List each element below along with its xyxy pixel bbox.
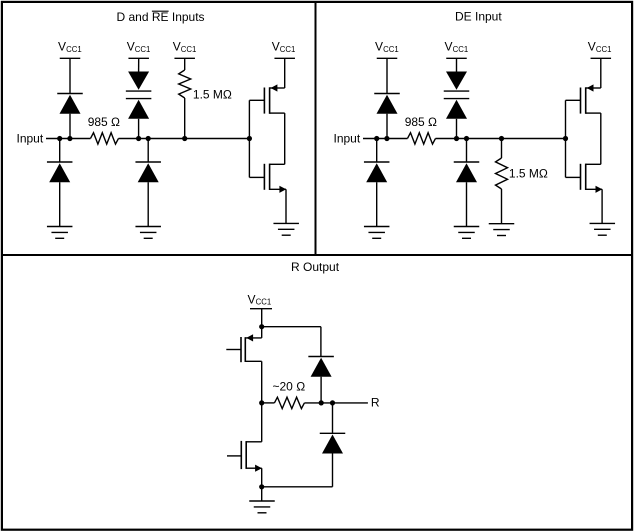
bottom panel: clamp diode D11 (output to VCC1) bbox=[308, 357, 334, 377]
right panel: node dot D9 bbox=[454, 136, 459, 141]
right panel: wire D9 to node bbox=[456, 119, 458, 139]
right panel: Input label bbox=[334, 131, 361, 145]
left panel: wire VCC1 to Q1 source bbox=[284, 58, 286, 88]
left panel: wire node to D5 bbox=[147, 139, 149, 163]
bottom panel: PMOS transistor Q5 bbox=[226, 334, 261, 362]
left panel: wire Q2 source to ground bbox=[285, 189, 287, 223]
bottom panel: VCC1 supply (over PMOS Q5) bbox=[248, 292, 273, 308]
right panel: VCC1 supply 2 (over diode pair) bbox=[445, 40, 469, 59]
left panel: VCC1 supply 4 (over PMOS Q1) bbox=[272, 40, 296, 59]
svg-text:V: V bbox=[375, 40, 383, 54]
left panel: resistor R2 label bbox=[193, 88, 232, 102]
bottom panel: node dot clamp bottom bbox=[330, 400, 335, 405]
svg-text:985 Ω: 985 Ω bbox=[405, 115, 437, 129]
left panel: input rail wire left of R1 bbox=[46, 138, 91, 140]
svg-text:V: V bbox=[272, 40, 280, 54]
right panel: VCC1 supply 1 (over ESD diode D6) bbox=[375, 40, 399, 59]
right panel: wire input node to D7 bbox=[376, 139, 378, 163]
bottom panel: wire D12 to source rail bbox=[262, 454, 333, 487]
right panel: ESD diode D6 (input to VCC1) bbox=[374, 94, 400, 114]
left panel: node dot D4 bbox=[136, 136, 141, 141]
right panel: wire node to D10 bbox=[466, 139, 468, 163]
svg-text:CC1: CC1 bbox=[383, 45, 399, 54]
right panel: node dot input/D6 bbox=[384, 136, 389, 141]
left panel: wire VCC1 to R2 bbox=[184, 58, 186, 70]
left panel: wire gate junction vertical bbox=[248, 100, 250, 177]
left panel: wire Q1 drain to Q2 drain bbox=[284, 113, 286, 164]
bottom panel: wire Q5 drain to output node bbox=[261, 361, 263, 442]
left panel: wire input node to D2 bbox=[59, 139, 61, 163]
right panel: clamp diode D8 (pointing down) bbox=[444, 72, 470, 92]
right panel: NMOS transistor Q4 bbox=[566, 164, 603, 193]
svg-text:CC1: CC1 bbox=[135, 45, 151, 54]
left panel: wire D1 to input node bbox=[69, 114, 71, 139]
title: D and RE Inputs (overline on RE) bbox=[117, 10, 205, 24]
right panel: clamp diode D9 (pointing up) bbox=[444, 99, 470, 119]
left panel: ground symbol under D2 bbox=[47, 227, 72, 239]
right panel: wire D7 to ground bbox=[376, 182, 378, 226]
svg-text:V: V bbox=[588, 40, 596, 54]
bottom panel: wire Q6 source to ground bbox=[261, 468, 263, 501]
left panel: node dot input/D2 bbox=[57, 136, 62, 141]
right panel: wire VCC1 to D6 bbox=[386, 58, 388, 93]
left panel: resistor R1 985 ohm bbox=[91, 133, 119, 144]
bottom panel: node dot supply bbox=[259, 324, 264, 329]
bottom panel: resistor R5 ~20 ohm label bbox=[273, 380, 306, 394]
right panel: wire R4 to ground bbox=[501, 189, 503, 224]
left panel: ESD diode D2 (ground to input) bbox=[47, 162, 72, 182]
right panel: input rail wire left of R3 bbox=[363, 138, 408, 140]
svg-text:V: V bbox=[173, 40, 181, 54]
right panel: input rail wire right of R3 bbox=[436, 138, 566, 140]
svg-text:R Output: R Output bbox=[291, 260, 340, 274]
bottom panel: ground symbol under Q6 bbox=[249, 501, 275, 513]
left panel: VCC1 supply 3 (over pull-up resistor) bbox=[173, 40, 197, 59]
svg-text:Input: Input bbox=[334, 131, 361, 145]
bottom panel: wire VCC1 to supply node bbox=[261, 309, 263, 338]
svg-text:1.5 MΩ: 1.5 MΩ bbox=[193, 88, 232, 102]
right panel: wire D6 to input node bbox=[386, 114, 388, 139]
left panel: wire D4 to node bbox=[138, 119, 140, 139]
left panel: resistor R1 985 ohm label bbox=[88, 115, 120, 129]
svg-text:1.5 MΩ: 1.5 MΩ bbox=[509, 167, 548, 181]
svg-text:DE Input: DE Input bbox=[455, 10, 502, 24]
right panel: wire gate junction vertical bbox=[565, 100, 567, 177]
svg-text:985 Ω: 985 Ω bbox=[88, 115, 120, 129]
bottom panel: node dot source bbox=[259, 484, 264, 489]
bottom panel: node dot output left bbox=[259, 400, 264, 405]
bottom panel: wire D11 to output node bbox=[320, 377, 322, 403]
right panel: ground symbol under R4 bbox=[489, 224, 515, 236]
right panel: node dot pull-down bbox=[499, 136, 504, 141]
right panel: wire VCC1 to D8 bbox=[456, 58, 458, 71]
right panel: ESD diode D7 (ground to input) bbox=[364, 162, 390, 182]
svg-text:~20 Ω: ~20 Ω bbox=[273, 380, 306, 394]
left panel: node dot D5 bbox=[146, 136, 151, 141]
svg-text:V: V bbox=[127, 40, 135, 54]
svg-text:CC1: CC1 bbox=[280, 45, 296, 54]
svg-text:CC1: CC1 bbox=[256, 298, 272, 307]
vertical panel divider bbox=[315, 2, 317, 255]
left panel: ESD diode D5 (ground to node) bbox=[135, 162, 161, 182]
bottom panel: wire supply node to clamp diode D11 bbox=[262, 327, 321, 357]
right panel: resistor R3 985 ohm label bbox=[405, 115, 437, 129]
left panel: pull-up resistor R2 1.5 Mohm bbox=[179, 70, 191, 98]
left panel: VCC1 supply 2 (over diode pair) bbox=[127, 40, 151, 59]
svg-text:D and RE Inputs: D and RE Inputs bbox=[117, 10, 205, 24]
left panel: input rail wire right of R1 bbox=[119, 138, 250, 140]
left panel: node dot R2 bbox=[182, 136, 187, 141]
right panel: ground symbol under Q4 bbox=[590, 223, 616, 235]
left panel: wire D2 to ground bbox=[59, 182, 61, 226]
right panel: node dot input/D7 bbox=[374, 136, 379, 141]
bottom panel: clamp diode D12 (ground to output) bbox=[320, 433, 346, 453]
left panel: clamp diode D3 (pointing down) bbox=[126, 72, 152, 92]
bottom panel: R output label bbox=[371, 395, 380, 409]
right panel: ground symbol under D7 bbox=[364, 227, 390, 239]
right panel: node dot gate junction bbox=[563, 136, 568, 141]
right panel: wire VCC1 to Q3 source bbox=[600, 58, 602, 88]
bottom panel: wire R5 to diode nodes bbox=[304, 402, 368, 404]
right panel: resistor R3 985 ohm bbox=[408, 133, 436, 144]
right panel: node dot D10 bbox=[464, 136, 469, 141]
left panel: wire VCC1 to D3 bbox=[138, 58, 140, 71]
left panel: wire D5 to ground bbox=[147, 182, 149, 226]
right panel: wire Q3 drain to Q4 drain bbox=[600, 113, 602, 164]
right panel: pull-down resistor R4 1.5 Mohm bbox=[496, 158, 508, 189]
right panel: ESD diode D10 (ground to node) bbox=[454, 162, 480, 182]
left panel: node dot gate junction bbox=[247, 136, 252, 141]
svg-text:V: V bbox=[248, 292, 256, 306]
svg-text:CC1: CC1 bbox=[453, 45, 469, 54]
right panel: ground symbol under D10 bbox=[454, 227, 480, 239]
svg-text:R: R bbox=[371, 395, 380, 409]
svg-text:Input: Input bbox=[17, 131, 44, 145]
left panel: wire VCC1 to D1 bbox=[69, 58, 71, 93]
right panel: wire D10 to ground bbox=[466, 182, 468, 226]
left panel: Input label bbox=[17, 131, 44, 145]
right panel: VCC1 supply 3 (over PMOS Q3) bbox=[588, 40, 612, 59]
title: DE Input bbox=[455, 10, 502, 24]
left panel: wire R2 to node bbox=[184, 98, 186, 139]
svg-text:CC1: CC1 bbox=[66, 45, 82, 54]
right panel: resistor R4 label bbox=[509, 167, 548, 181]
left panel: PMOS transistor Q1 bbox=[249, 84, 284, 113]
left panel: ground symbol under D5 bbox=[135, 227, 161, 239]
bottom panel: wire output node to clamp diode D12 bbox=[332, 403, 334, 433]
right panel: wire node to R4 bbox=[501, 139, 503, 159]
left panel: ground symbol under Q2 bbox=[273, 223, 299, 235]
left panel: ESD diode D1 (input to VCC1) bbox=[57, 94, 83, 114]
bottom panel: wire output node to R5 bbox=[262, 402, 275, 404]
bottom panel: resistor R5 ~20 ohm bbox=[274, 397, 304, 408]
svg-text:V: V bbox=[445, 40, 453, 54]
right panel: PMOS transistor Q3 bbox=[566, 84, 601, 113]
horizontal panel divider bbox=[2, 254, 632, 256]
right panel: wire Q4 source to ground bbox=[601, 189, 603, 223]
svg-text:CC1: CC1 bbox=[181, 45, 197, 54]
title: R Output bbox=[291, 260, 340, 274]
left panel: node dot input/D1 bbox=[67, 136, 72, 141]
svg-text:V: V bbox=[58, 40, 66, 54]
bottom panel: NMOS transistor Q6 bbox=[227, 441, 262, 472]
bottom panel: node dot clamp top bbox=[319, 400, 324, 405]
left panel: VCC1 supply 1 (over ESD diode D1) bbox=[58, 40, 82, 59]
left panel: NMOS transistor Q2 bbox=[249, 164, 286, 193]
svg-text:CC1: CC1 bbox=[596, 45, 612, 54]
left panel: clamp diode D4 (pointing up) bbox=[126, 99, 152, 119]
